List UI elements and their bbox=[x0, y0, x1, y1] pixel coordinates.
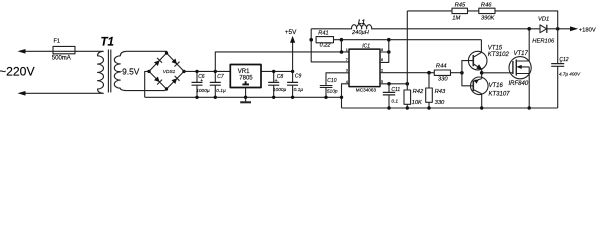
wire C7 node up to IC1 pin1 bbox=[215, 52, 349, 72]
resistor R43 bbox=[426, 73, 433, 108]
transformer T1 primary winding bbox=[98, 51, 104, 93]
label +180V bbox=[579, 27, 596, 33]
label C10 bbox=[327, 78, 336, 84]
transistor VT16 bbox=[471, 77, 489, 95]
svg-text:0.22: 0.22 bbox=[320, 42, 332, 48]
node C7 bottom bbox=[214, 96, 217, 99]
svg-text:7805: 7805 bbox=[239, 76, 253, 82]
svg-text:0.1µ: 0.1µ bbox=[216, 88, 226, 94]
node pin5 R42 feedback bbox=[406, 82, 410, 86]
svg-text:4: 4 bbox=[346, 80, 348, 84]
ground rail A bbox=[145, 96, 342, 98]
svg-text:KT3102: KT3102 bbox=[488, 52, 510, 58]
svg-text:3: 3 bbox=[346, 69, 348, 73]
svg-text:2: 2 bbox=[381, 69, 383, 73]
label R43 bbox=[435, 89, 446, 95]
label R44 bbox=[436, 64, 447, 70]
label HER106 bbox=[532, 38, 555, 44]
diode VD1 bbox=[540, 25, 547, 33]
svg-text:1M: 1M bbox=[452, 16, 460, 22]
transistor VT15 bbox=[468, 51, 487, 70]
svg-text:6: 6 bbox=[381, 58, 383, 62]
resistor R45 bbox=[452, 8, 468, 13]
node pin5 C11 bbox=[387, 82, 391, 86]
svg-text:~9.5V: ~9.5V bbox=[117, 67, 140, 77]
svg-text:+: + bbox=[200, 78, 203, 84]
capacitor C6 bbox=[192, 71, 203, 97]
svg-text:KT3107: KT3107 bbox=[489, 92, 511, 98]
label IC1 bbox=[362, 44, 370, 50]
wire +5V riser bbox=[292, 43, 294, 72]
node C10 bottom bbox=[324, 96, 327, 99]
bridge diode D4 bottom-right bbox=[172, 76, 180, 84]
svg-text:510p: 510p bbox=[327, 89, 338, 95]
value 510p bbox=[327, 89, 338, 95]
inductor L1 bbox=[311, 25, 540, 29]
pin number 1 bbox=[346, 48, 348, 52]
wire VT17 drain riser bbox=[528, 29, 530, 61]
node C9 bottom bbox=[291, 96, 294, 99]
svg-text:MC34063: MC34063 bbox=[356, 88, 377, 93]
wire VT16 base bbox=[462, 73, 473, 86]
fuse F1 bbox=[53, 46, 75, 53]
node drive line x389 bbox=[387, 38, 391, 42]
label C7 bbox=[217, 74, 224, 80]
value 0.22 bbox=[320, 42, 332, 48]
pin number 6 bbox=[381, 58, 383, 62]
mosfet VT17 IRF840 bbox=[509, 57, 531, 79]
value 1M bbox=[452, 16, 460, 22]
label KT3102 bbox=[488, 52, 510, 58]
value 1000µ bbox=[196, 88, 210, 94]
node VR1 gnd bbox=[244, 96, 247, 99]
value 330 bbox=[435, 100, 445, 106]
wire L1 branch vertical x311 bbox=[311, 29, 349, 62]
wire VR1 out rail bbox=[261, 70, 293, 72]
label MC34063 bbox=[356, 88, 377, 93]
svg-text:L1: L1 bbox=[358, 20, 366, 26]
svg-text:VT17: VT17 bbox=[514, 51, 529, 57]
svg-text:C10: C10 bbox=[327, 78, 336, 84]
label VT15 bbox=[488, 45, 503, 51]
wire R41 node down to pin1 bbox=[340, 40, 342, 52]
value 4.7µ 400V bbox=[559, 72, 581, 77]
wire R44 to bases node bbox=[451, 72, 462, 74]
value 0.1µ bbox=[294, 87, 304, 93]
label VT16 bbox=[489, 83, 504, 89]
wire secondary top to bridge bbox=[127, 51, 167, 53]
svg-text:+: + bbox=[275, 78, 278, 84]
wire secondary bottom to bridge AC2 bbox=[127, 89, 167, 91]
svg-text:VD1: VD1 bbox=[538, 16, 549, 22]
value 0.1 bbox=[391, 99, 398, 105]
VR1 gnd pin marker bbox=[242, 81, 249, 84]
svg-text:R42: R42 bbox=[413, 89, 424, 95]
svg-text:~220V: ~220V bbox=[0, 65, 35, 79]
label IRF840 bbox=[509, 81, 529, 87]
svg-text:330: 330 bbox=[438, 76, 448, 82]
resistor R41 bbox=[316, 37, 333, 43]
node VT16 collector rail bbox=[480, 106, 483, 109]
value 390K bbox=[481, 16, 496, 22]
svg-text:C7: C7 bbox=[217, 74, 224, 80]
wire bridge minus to ground rail bbox=[145, 71, 149, 97]
label 7805 bbox=[239, 76, 253, 82]
bottom rail B bbox=[342, 107, 558, 109]
node C6 bottom bbox=[195, 96, 198, 99]
wire drive line y39.7 bbox=[334, 39, 482, 41]
arrow mains top bbox=[18, 49, 26, 54]
wire gate line bbox=[482, 72, 513, 74]
svg-text:R46: R46 bbox=[481, 3, 492, 9]
resistor R44 bbox=[434, 70, 450, 75]
value 330 bbox=[438, 76, 448, 82]
svg-text:F1: F1 bbox=[54, 39, 61, 45]
svg-text:R44: R44 bbox=[436, 64, 447, 70]
resistor R46 bbox=[479, 8, 495, 13]
svg-text:500mA: 500mA bbox=[52, 56, 71, 62]
value 10K bbox=[412, 100, 423, 106]
node C11 bottom bbox=[387, 106, 390, 109]
bridge diode D1 top-left bbox=[154, 58, 162, 66]
node R41 left bbox=[309, 38, 313, 42]
svg-text:1000µ: 1000µ bbox=[273, 87, 287, 93]
ground symbol bbox=[240, 97, 251, 102]
svg-text:1000µ: 1000µ bbox=[196, 88, 210, 94]
svg-text:330: 330 bbox=[435, 100, 445, 106]
label KT3107 bbox=[489, 92, 511, 98]
IC1 MC34063 box bbox=[349, 49, 380, 87]
svg-text:VT15: VT15 bbox=[488, 45, 503, 51]
svg-text:VT16: VT16 bbox=[489, 83, 504, 89]
value 0.1µ bbox=[216, 88, 226, 94]
label R46 bbox=[481, 3, 492, 9]
resistor R42 bbox=[404, 84, 411, 108]
pin number 4 bbox=[346, 80, 348, 84]
svg-text:C11: C11 bbox=[391, 87, 400, 93]
node pin4 rail A bbox=[340, 96, 343, 99]
arrow mains bottom bbox=[18, 91, 26, 96]
arrow +5V bbox=[290, 36, 295, 43]
node C6 top bbox=[195, 70, 198, 73]
svg-text:390K: 390K bbox=[481, 16, 496, 22]
node bridge right bbox=[182, 70, 185, 73]
wire pin2 to R44 bbox=[380, 72, 434, 74]
node R43 top bbox=[427, 71, 431, 75]
node R43 bottom bbox=[427, 106, 430, 109]
wire DC+ rail to VR1 bbox=[184, 70, 230, 72]
svg-text:VDS1: VDS1 bbox=[163, 69, 176, 75]
svg-text:IC1: IC1 bbox=[362, 44, 370, 50]
value 1000µ bbox=[273, 87, 287, 93]
value 240µH bbox=[351, 30, 370, 36]
capacitor C12 bbox=[551, 29, 564, 108]
svg-text:240µH: 240µH bbox=[351, 30, 370, 36]
node C9 top bbox=[291, 70, 294, 73]
svg-text:7: 7 bbox=[346, 58, 348, 62]
bridge rectifier VDS1 frame bbox=[149, 53, 184, 89]
label T1 bbox=[101, 36, 114, 48]
node pin1 junction bbox=[340, 50, 344, 54]
label 500mA bbox=[52, 56, 71, 62]
label C12 bbox=[559, 57, 568, 64]
pin number 3 bbox=[346, 69, 348, 73]
pin number 2 bbox=[381, 69, 383, 73]
svg-text:+: + bbox=[560, 59, 563, 64]
wire VD1 cathode to output bbox=[547, 28, 570, 30]
svg-text:R41: R41 bbox=[318, 31, 328, 37]
capacitor C8 bbox=[268, 71, 279, 97]
wire VT15 emitter down bbox=[481, 69, 483, 73]
regulator VR1 7805 bbox=[230, 65, 261, 88]
wire VT15 base bbox=[462, 61, 473, 73]
capacitor C10 bbox=[320, 73, 349, 98]
label R45 bbox=[455, 3, 466, 9]
wire feedback riser x407 bbox=[406, 11, 408, 84]
svg-text:5: 5 bbox=[381, 80, 383, 84]
label +5V bbox=[285, 29, 297, 36]
label ~9.5V bbox=[117, 67, 140, 77]
node C8 bottom bbox=[272, 96, 275, 99]
capacitor C9 bbox=[287, 71, 298, 97]
label C11 bbox=[391, 87, 400, 93]
node bridge left bbox=[147, 70, 150, 73]
svg-text:C8: C8 bbox=[277, 74, 284, 80]
label R42 bbox=[413, 89, 424, 95]
label VD1 bbox=[538, 16, 549, 22]
node pin8 junction bbox=[387, 50, 391, 54]
svg-text:IRF840: IRF840 bbox=[509, 81, 529, 87]
wire VT16 emitter up bbox=[481, 73, 483, 79]
svg-text:+5V: +5V bbox=[285, 29, 297, 36]
wire bottom-left mains N bbox=[20, 92, 101, 94]
pin number 8 bbox=[381, 48, 383, 52]
wire VT16 collector down bbox=[481, 94, 483, 108]
svg-text:R45: R45 bbox=[455, 3, 466, 9]
label VDS1 bbox=[163, 69, 176, 75]
wire VT17 source down bbox=[528, 74, 530, 109]
wire pin8 pin6 to drive line bbox=[380, 40, 389, 63]
node bridge top bbox=[165, 51, 168, 54]
node output junction bbox=[556, 27, 560, 31]
svg-text:0.1µ: 0.1µ bbox=[294, 87, 304, 93]
svg-text:0.1: 0.1 bbox=[391, 99, 398, 105]
pin number 5 bbox=[381, 80, 383, 84]
node C7 top bbox=[214, 70, 217, 73]
svg-text:T1: T1 bbox=[101, 36, 114, 48]
transformer T1 core bbox=[108, 50, 110, 93]
wire feedback top line bbox=[407, 11, 557, 29]
label R41 bbox=[318, 31, 328, 37]
wire VT15 collector riser bbox=[480, 40, 482, 53]
label C9 bbox=[295, 74, 302, 80]
bridge diode D3 bottom-left bbox=[154, 76, 162, 84]
capacitor C11 bbox=[383, 84, 395, 108]
svg-text:R43: R43 bbox=[435, 89, 446, 95]
label VT17 bbox=[514, 51, 529, 57]
svg-text:1: 1 bbox=[346, 48, 348, 52]
pin number 7 bbox=[346, 58, 348, 62]
label F1 bbox=[54, 39, 61, 45]
svg-text:HER106: HER106 bbox=[532, 38, 555, 44]
svg-text:10K: 10K bbox=[412, 100, 423, 106]
node R42 bottom bbox=[406, 106, 409, 109]
bridge diode D2 top-right bbox=[172, 58, 180, 66]
label VR1 bbox=[238, 69, 250, 75]
label L1 bbox=[358, 20, 366, 26]
node C8 top bbox=[272, 70, 275, 73]
wire pin4 to ground rail and jog bbox=[342, 84, 350, 108]
label C6 bbox=[198, 74, 205, 84]
wire VR1 gnd pin bbox=[245, 88, 247, 98]
capacitor C7 bbox=[210, 71, 221, 97]
transformer T1 secondary winding bbox=[114, 51, 126, 90]
svg-text:4.7µ 400V: 4.7µ 400V bbox=[559, 72, 581, 77]
label C8 bbox=[275, 74, 284, 84]
node bridge bottom bbox=[165, 87, 168, 90]
node VD1 anode junction bbox=[527, 27, 531, 31]
node R41 right bbox=[340, 38, 344, 42]
node bases junction bbox=[460, 71, 464, 75]
arrow +180V bbox=[570, 26, 578, 31]
node emitters junction bbox=[480, 71, 484, 75]
wire pin5 line bbox=[380, 83, 407, 85]
svg-text:+180V: +180V bbox=[579, 27, 596, 33]
wire top-left mains L bbox=[20, 50, 101, 52]
node VT17 source rail bbox=[528, 106, 531, 109]
svg-text:C9: C9 bbox=[295, 74, 302, 80]
label ~220V bbox=[0, 65, 35, 79]
svg-text:VR1: VR1 bbox=[238, 69, 250, 75]
